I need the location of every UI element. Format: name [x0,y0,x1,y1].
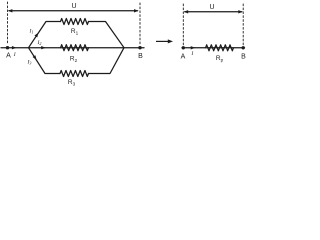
wire: main line A to B (left circuit) [1,47,144,49]
svg-text:A: A [181,54,186,61]
node B terminal dot (left circuit) [138,46,141,49]
resistor R3 [60,71,89,77]
svg-text:U: U [209,4,214,11]
node A terminal dot (right circuit) [182,46,185,49]
U arrowhead right (right circuit) [238,10,243,13]
dashed extension line at node B (right circuit) [242,4,244,45]
svg-text:B: B [241,54,246,61]
current I arrowhead (right circuit) [191,46,196,49]
dashed extension line at node A (right circuit) [182,4,184,45]
resistor Rp [206,45,234,51]
svg-text:A: A [6,53,11,60]
voltage U dimension line (left circuit) [9,10,138,12]
current I3 arrowhead (bottom branch diagonal) [33,55,37,60]
wire: left junction to top branch [29,22,61,48]
voltage U dimension line (right circuit) [185,11,242,13]
wire: left junction to bottom branch [29,48,61,74]
svg-text:B: B [138,53,143,60]
U arrowhead right (left circuit) [134,9,139,12]
dashed extension line at node B (left circuit) [139,3,141,44]
svg-text:I2: I2 [37,40,42,46]
U arrowhead left (left circuit) [8,9,13,12]
svg-text:I1: I1 [29,29,34,35]
current I2 arrowhead [41,46,46,49]
wire: R1 to right junction [89,22,125,48]
node B terminal dot (right circuit) [242,46,245,49]
wire: R3 to right junction [89,48,125,74]
dashed extension line at node A (left circuit) [7,2,9,44]
current I1 arrowhead (top branch diagonal) [34,33,38,38]
U arrowhead left (right circuit) [184,10,189,13]
resistor R1 [61,19,89,25]
wire: main line A to B (right circuit) [182,47,245,49]
svg-text:U: U [71,3,76,10]
resistor R2 [61,45,89,51]
svg-text:I3: I3 [27,60,32,66]
node A terminal dot (left circuit) [6,46,9,49]
equivalence arrow between circuits [156,39,173,43]
current I arrowhead (left circuit) [12,46,17,49]
